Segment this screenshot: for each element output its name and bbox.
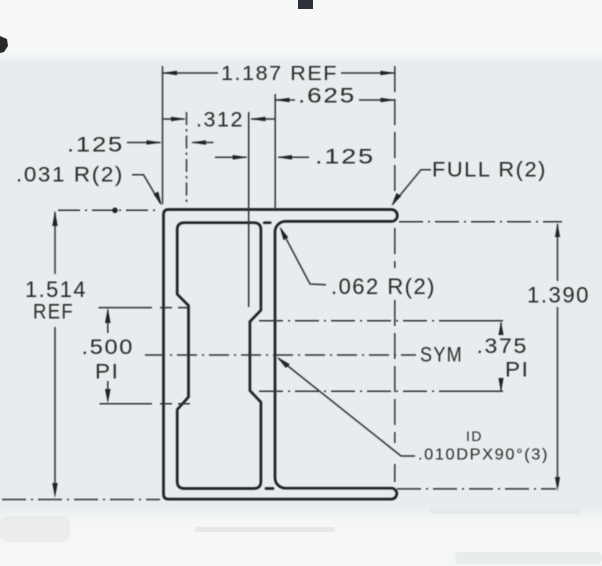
arrow 1.390 down <box>555 477 560 491</box>
svg-text:PI: PI <box>505 359 530 382</box>
SYM centerline dash-dot <box>145 354 416 356</box>
thin line work <box>2 66 562 500</box>
leader ID note <box>279 359 416 457</box>
svg-text:.125: .125 <box>315 146 375 169</box>
dimension .625 line <box>275 99 295 101</box>
centerline bottom-right dash-dot <box>397 488 556 490</box>
svg-text:.375: .375 <box>477 335 529 358</box>
arrow leader .062 <box>280 227 289 241</box>
.375 PI ext bottom dash-dot <box>259 390 455 392</box>
svg-text:PI: PI <box>95 361 120 384</box>
extension line wall-right <box>274 94 276 208</box>
dimension .375 PI arrow stubs <box>500 323 502 334</box>
centerline bottom-left dash-dot <box>2 499 160 501</box>
svg-text:1.187 REF: 1.187 REF <box>221 62 338 85</box>
arrow leader .031 <box>154 192 162 206</box>
.375 PI ext top dash-dot <box>259 320 455 322</box>
dimension .125 right line <box>215 156 247 158</box>
leader FULL R(2) <box>393 170 432 205</box>
leader .031 R(2) <box>132 175 161 204</box>
arrow .125R left <box>233 155 248 160</box>
scan mark left edge <box>0 36 8 53</box>
arrow .625 right <box>381 98 396 103</box>
inner cavity with waist <box>177 223 273 489</box>
arrow .375 PI down <box>498 378 503 392</box>
arrowheads <box>52 71 560 498</box>
arrow .500 PI up <box>105 308 111 323</box>
svg-text:.062 R(2): .062 R(2) <box>331 274 436 299</box>
arrow 1.514 up <box>52 211 57 226</box>
arrow leader ID <box>277 357 290 368</box>
paper streak marks bottom <box>195 527 335 532</box>
arrow .312 left <box>171 117 186 122</box>
svg-text:.312: .312 <box>196 109 244 132</box>
centerline top-left dash-dot <box>58 209 157 211</box>
svg-text:.500: .500 <box>82 336 135 359</box>
svg-text:.625: .625 <box>298 85 356 108</box>
arrow 1.187 right <box>381 71 396 76</box>
svg-text:.125: .125 <box>67 134 124 157</box>
.500 PI ext bottom dash-dot <box>100 403 153 405</box>
leader .062 R(2) <box>281 229 326 285</box>
arrow 1.390 up <box>555 223 560 237</box>
svg-text:.031 R(2): .031 R(2) <box>16 164 124 187</box>
dimension .312 line <box>163 118 185 120</box>
paper margin bottom white <box>0 522 602 566</box>
arrow .312 right <box>250 117 265 122</box>
arrow leader FULL R <box>392 193 402 206</box>
arrow 1.514 down <box>52 483 57 498</box>
arrow .625 left <box>274 98 289 103</box>
arrow 1.187 left <box>162 71 178 76</box>
dimension .125 left line <box>127 142 161 144</box>
svg-text:FULL R(2): FULL R(2) <box>432 159 547 182</box>
dimension 1.390 line <box>557 224 559 281</box>
paper margin top white <box>0 0 602 50</box>
svg-text:1.390: 1.390 <box>527 283 590 308</box>
extension line left x163 <box>162 66 164 204</box>
arrow .125R right <box>277 155 292 160</box>
scan mark top edge <box>298 0 313 9</box>
extension line neck-left dash-dot <box>186 112 188 206</box>
arrow .125L left <box>147 140 162 145</box>
dimension 1.514 REF line <box>54 212 56 274</box>
extension line neck-right <box>248 112 250 307</box>
svg-text:REF: REF <box>33 301 74 324</box>
arrow .500 PI down <box>105 389 111 403</box>
svg-text:.010DPX90°(3): .010DPX90°(3) <box>418 447 549 464</box>
centerline top-right dash-dot <box>399 221 562 223</box>
svg-text:SYM: SYM <box>420 344 463 367</box>
arrow .375 PI up <box>498 322 503 335</box>
svg-text:ID: ID <box>466 428 483 444</box>
profile outline <box>164 210 398 500</box>
svg-text:1.514: 1.514 <box>25 277 87 302</box>
dimension .500 PI line <box>107 310 109 333</box>
arrow .125L right <box>191 140 206 145</box>
dimension 1.187 REF line <box>163 72 219 74</box>
extension line right x395 dashed <box>394 66 396 202</box>
.500 PI ext top dash-dot <box>99 307 153 309</box>
